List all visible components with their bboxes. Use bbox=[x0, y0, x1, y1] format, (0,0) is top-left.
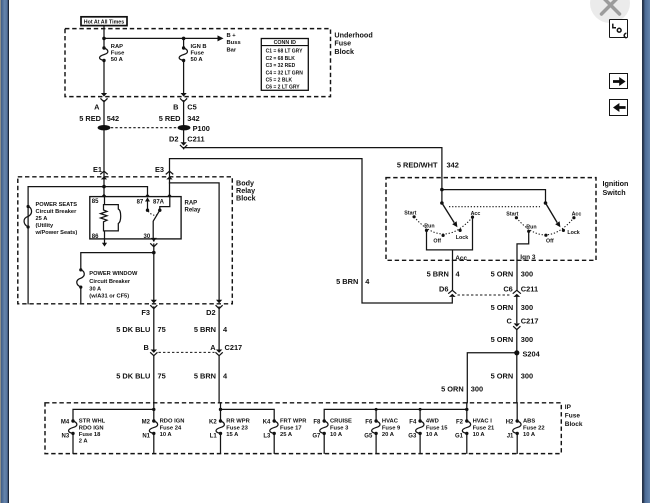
svg-text:50 A: 50 A bbox=[191, 57, 204, 63]
svg-text:2 A: 2 A bbox=[79, 439, 89, 445]
svg-text:5 DK BLU: 5 DK BLU bbox=[116, 372, 150, 381]
svg-text:B: B bbox=[143, 343, 148, 352]
svg-text:Run: Run bbox=[526, 224, 536, 230]
svg-text:Fuse 18: Fuse 18 bbox=[79, 432, 101, 438]
svg-text:Fuse 15: Fuse 15 bbox=[426, 425, 448, 431]
svg-text:Fuse 23: Fuse 23 bbox=[226, 425, 248, 431]
svg-text:86: 86 bbox=[92, 234, 99, 240]
svg-text:5 ORN: 5 ORN bbox=[491, 303, 514, 312]
svg-text:N1: N1 bbox=[142, 434, 150, 440]
svg-text:G7: G7 bbox=[312, 434, 321, 440]
svg-text:C5: C5 bbox=[187, 103, 196, 112]
svg-text:Fuse 3: Fuse 3 bbox=[330, 425, 349, 431]
svg-text:C217: C217 bbox=[225, 343, 243, 352]
svg-text:Acc: Acc bbox=[572, 212, 582, 218]
svg-text:5 ORN: 5 ORN bbox=[491, 335, 514, 344]
svg-text:C3 = 32 RED: C3 = 32 RED bbox=[266, 63, 296, 69]
svg-text:Ignition: Ignition bbox=[603, 179, 629, 188]
svg-text:S204: S204 bbox=[523, 349, 541, 358]
svg-text:10 A: 10 A bbox=[473, 432, 486, 438]
svg-text:L1: L1 bbox=[210, 434, 218, 440]
svg-text:CRUISE: CRUISE bbox=[330, 419, 352, 425]
svg-text:10 A: 10 A bbox=[330, 432, 343, 438]
svg-text:5 BRN: 5 BRN bbox=[336, 277, 358, 286]
svg-text:Start: Start bbox=[506, 211, 518, 217]
svg-text:75: 75 bbox=[158, 372, 166, 381]
svg-text:C6: C6 bbox=[503, 285, 512, 294]
svg-text:10 A: 10 A bbox=[523, 432, 536, 438]
svg-text:F8: F8 bbox=[313, 419, 321, 425]
svg-text:5 BRN: 5 BRN bbox=[194, 372, 216, 381]
svg-text:L3: L3 bbox=[263, 434, 271, 440]
svg-text:N3: N3 bbox=[62, 434, 70, 440]
svg-text:RAP: RAP bbox=[185, 201, 198, 207]
svg-text:ABS: ABS bbox=[523, 419, 535, 425]
svg-text:Fuse 21: Fuse 21 bbox=[473, 425, 495, 431]
svg-text:IP: IP bbox=[565, 404, 572, 411]
svg-text:Fuse: Fuse bbox=[565, 413, 581, 420]
svg-text:15 A: 15 A bbox=[226, 432, 239, 438]
svg-text:C2 = 68 BLK: C2 = 68 BLK bbox=[266, 56, 296, 62]
svg-text:50 A: 50 A bbox=[111, 57, 124, 63]
svg-text:K4: K4 bbox=[263, 419, 271, 425]
svg-text:Off: Off bbox=[433, 238, 441, 244]
svg-text:D2: D2 bbox=[169, 135, 178, 144]
svg-text:w/Power Seats): w/Power Seats) bbox=[35, 230, 78, 236]
svg-text:B: B bbox=[173, 103, 178, 112]
svg-text:(Utility: (Utility bbox=[36, 223, 55, 229]
svg-text:5 BRN: 5 BRN bbox=[194, 325, 216, 334]
svg-text:G3: G3 bbox=[408, 434, 417, 440]
svg-text:Fuse 22: Fuse 22 bbox=[523, 425, 545, 431]
svg-text:F6: F6 bbox=[365, 419, 373, 425]
svg-text:25 A: 25 A bbox=[280, 432, 293, 438]
svg-text:D2: D2 bbox=[206, 308, 215, 317]
svg-text:(w/A31 or CF5): (w/A31 or CF5) bbox=[89, 294, 129, 300]
svg-text:POWER SEATS: POWER SEATS bbox=[36, 202, 78, 208]
svg-text:Lock: Lock bbox=[456, 235, 468, 241]
svg-text:5 ORN: 5 ORN bbox=[491, 269, 514, 278]
svg-text:C217: C217 bbox=[521, 317, 539, 326]
svg-text:300: 300 bbox=[471, 384, 483, 393]
svg-text:C211: C211 bbox=[187, 135, 204, 144]
svg-text:C: C bbox=[507, 317, 513, 326]
svg-text:FRT WPR: FRT WPR bbox=[280, 419, 307, 425]
svg-text:5 RED/WHT: 5 RED/WHT bbox=[397, 161, 438, 170]
svg-text:342: 342 bbox=[187, 114, 199, 123]
svg-text:300: 300 bbox=[521, 303, 533, 312]
svg-text:30: 30 bbox=[144, 234, 151, 240]
svg-text:20 A: 20 A bbox=[382, 432, 395, 438]
svg-text:Acc: Acc bbox=[471, 211, 481, 217]
svg-text:10 A: 10 A bbox=[160, 432, 173, 438]
svg-text:E3: E3 bbox=[155, 165, 164, 174]
svg-text:C5 = 2 BLK: C5 = 2 BLK bbox=[266, 78, 293, 84]
svg-text:Start: Start bbox=[404, 210, 416, 216]
svg-text:300: 300 bbox=[521, 371, 533, 380]
svg-text:87A: 87A bbox=[153, 200, 165, 206]
svg-text:F4: F4 bbox=[409, 419, 417, 425]
svg-text:C6 = 2 LT GRY: C6 = 2 LT GRY bbox=[266, 85, 301, 91]
svg-text:RR WPR: RR WPR bbox=[226, 419, 250, 425]
svg-text:C4 = 32 LT GRN: C4 = 32 LT GRN bbox=[266, 70, 304, 76]
svg-text:Fuse 9: Fuse 9 bbox=[382, 425, 401, 431]
svg-text:C211: C211 bbox=[521, 285, 538, 294]
svg-text:D6: D6 bbox=[439, 285, 448, 294]
svg-text:C1 = 68 LT GRY: C1 = 68 LT GRY bbox=[266, 49, 303, 55]
svg-text:M2: M2 bbox=[142, 419, 151, 425]
svg-text:HVAC: HVAC bbox=[382, 419, 399, 425]
svg-text:STR WHL: STR WHL bbox=[79, 419, 106, 425]
svg-text:A: A bbox=[210, 343, 216, 352]
svg-text:Acc: Acc bbox=[455, 255, 467, 262]
svg-text:Run: Run bbox=[424, 223, 434, 229]
svg-text:5 RED: 5 RED bbox=[79, 114, 101, 123]
svg-text:E1: E1 bbox=[93, 165, 102, 174]
svg-text:300: 300 bbox=[521, 269, 533, 278]
svg-text:25 A: 25 A bbox=[36, 216, 48, 222]
svg-text:Ign 3: Ign 3 bbox=[520, 254, 536, 261]
svg-text:F2: F2 bbox=[456, 419, 464, 425]
svg-text:F3: F3 bbox=[141, 308, 150, 317]
svg-text:HVAC I: HVAC I bbox=[473, 419, 493, 425]
svg-text:342: 342 bbox=[447, 161, 459, 170]
svg-text:Fuse 24: Fuse 24 bbox=[160, 425, 182, 431]
svg-text:4WD: 4WD bbox=[426, 419, 439, 425]
svg-text:300: 300 bbox=[521, 335, 533, 344]
svg-text:POWER WINDOW: POWER WINDOW bbox=[89, 271, 138, 277]
svg-text:Fuse: Fuse bbox=[191, 51, 205, 57]
svg-text:G1: G1 bbox=[455, 434, 464, 440]
svg-text:Fuse: Fuse bbox=[111, 51, 125, 57]
svg-text:Block: Block bbox=[236, 194, 256, 203]
svg-text:30 A: 30 A bbox=[89, 286, 101, 292]
svg-text:J1: J1 bbox=[507, 434, 514, 440]
svg-text:M4: M4 bbox=[61, 419, 70, 425]
svg-text:542: 542 bbox=[107, 114, 119, 123]
svg-text:H2: H2 bbox=[506, 419, 514, 425]
svg-text:Bar: Bar bbox=[227, 47, 237, 53]
svg-text:Circuit Breaker: Circuit Breaker bbox=[36, 209, 78, 215]
svg-text:Switch: Switch bbox=[603, 188, 626, 197]
svg-text:Lock: Lock bbox=[567, 230, 579, 236]
svg-text:5 ORN: 5 ORN bbox=[441, 384, 464, 393]
svg-text:5 DK BLU: 5 DK BLU bbox=[116, 325, 150, 334]
svg-text:5 RED: 5 RED bbox=[159, 114, 181, 123]
svg-text:A: A bbox=[94, 103, 100, 112]
svg-text:RDO IGN: RDO IGN bbox=[79, 425, 104, 431]
svg-text:87: 87 bbox=[137, 200, 144, 206]
svg-text:75: 75 bbox=[158, 325, 166, 334]
svg-text:5 BRN: 5 BRN bbox=[427, 269, 449, 278]
svg-text:Off: Off bbox=[546, 239, 554, 245]
svg-text:Relay: Relay bbox=[185, 207, 202, 213]
svg-text:Block: Block bbox=[565, 421, 583, 428]
svg-text:Fuse 17: Fuse 17 bbox=[280, 425, 302, 431]
svg-text:G5: G5 bbox=[364, 434, 373, 440]
svg-text:85: 85 bbox=[92, 199, 99, 205]
svg-text:5 ORN: 5 ORN bbox=[491, 371, 514, 380]
svg-text:Circuit Breaker: Circuit Breaker bbox=[89, 279, 131, 285]
svg-text:Block: Block bbox=[334, 47, 354, 56]
svg-text:K2: K2 bbox=[209, 419, 217, 425]
svg-text:RDO IGN: RDO IGN bbox=[160, 419, 185, 425]
svg-text:P100: P100 bbox=[193, 124, 210, 133]
svg-text:10 A: 10 A bbox=[426, 432, 439, 438]
